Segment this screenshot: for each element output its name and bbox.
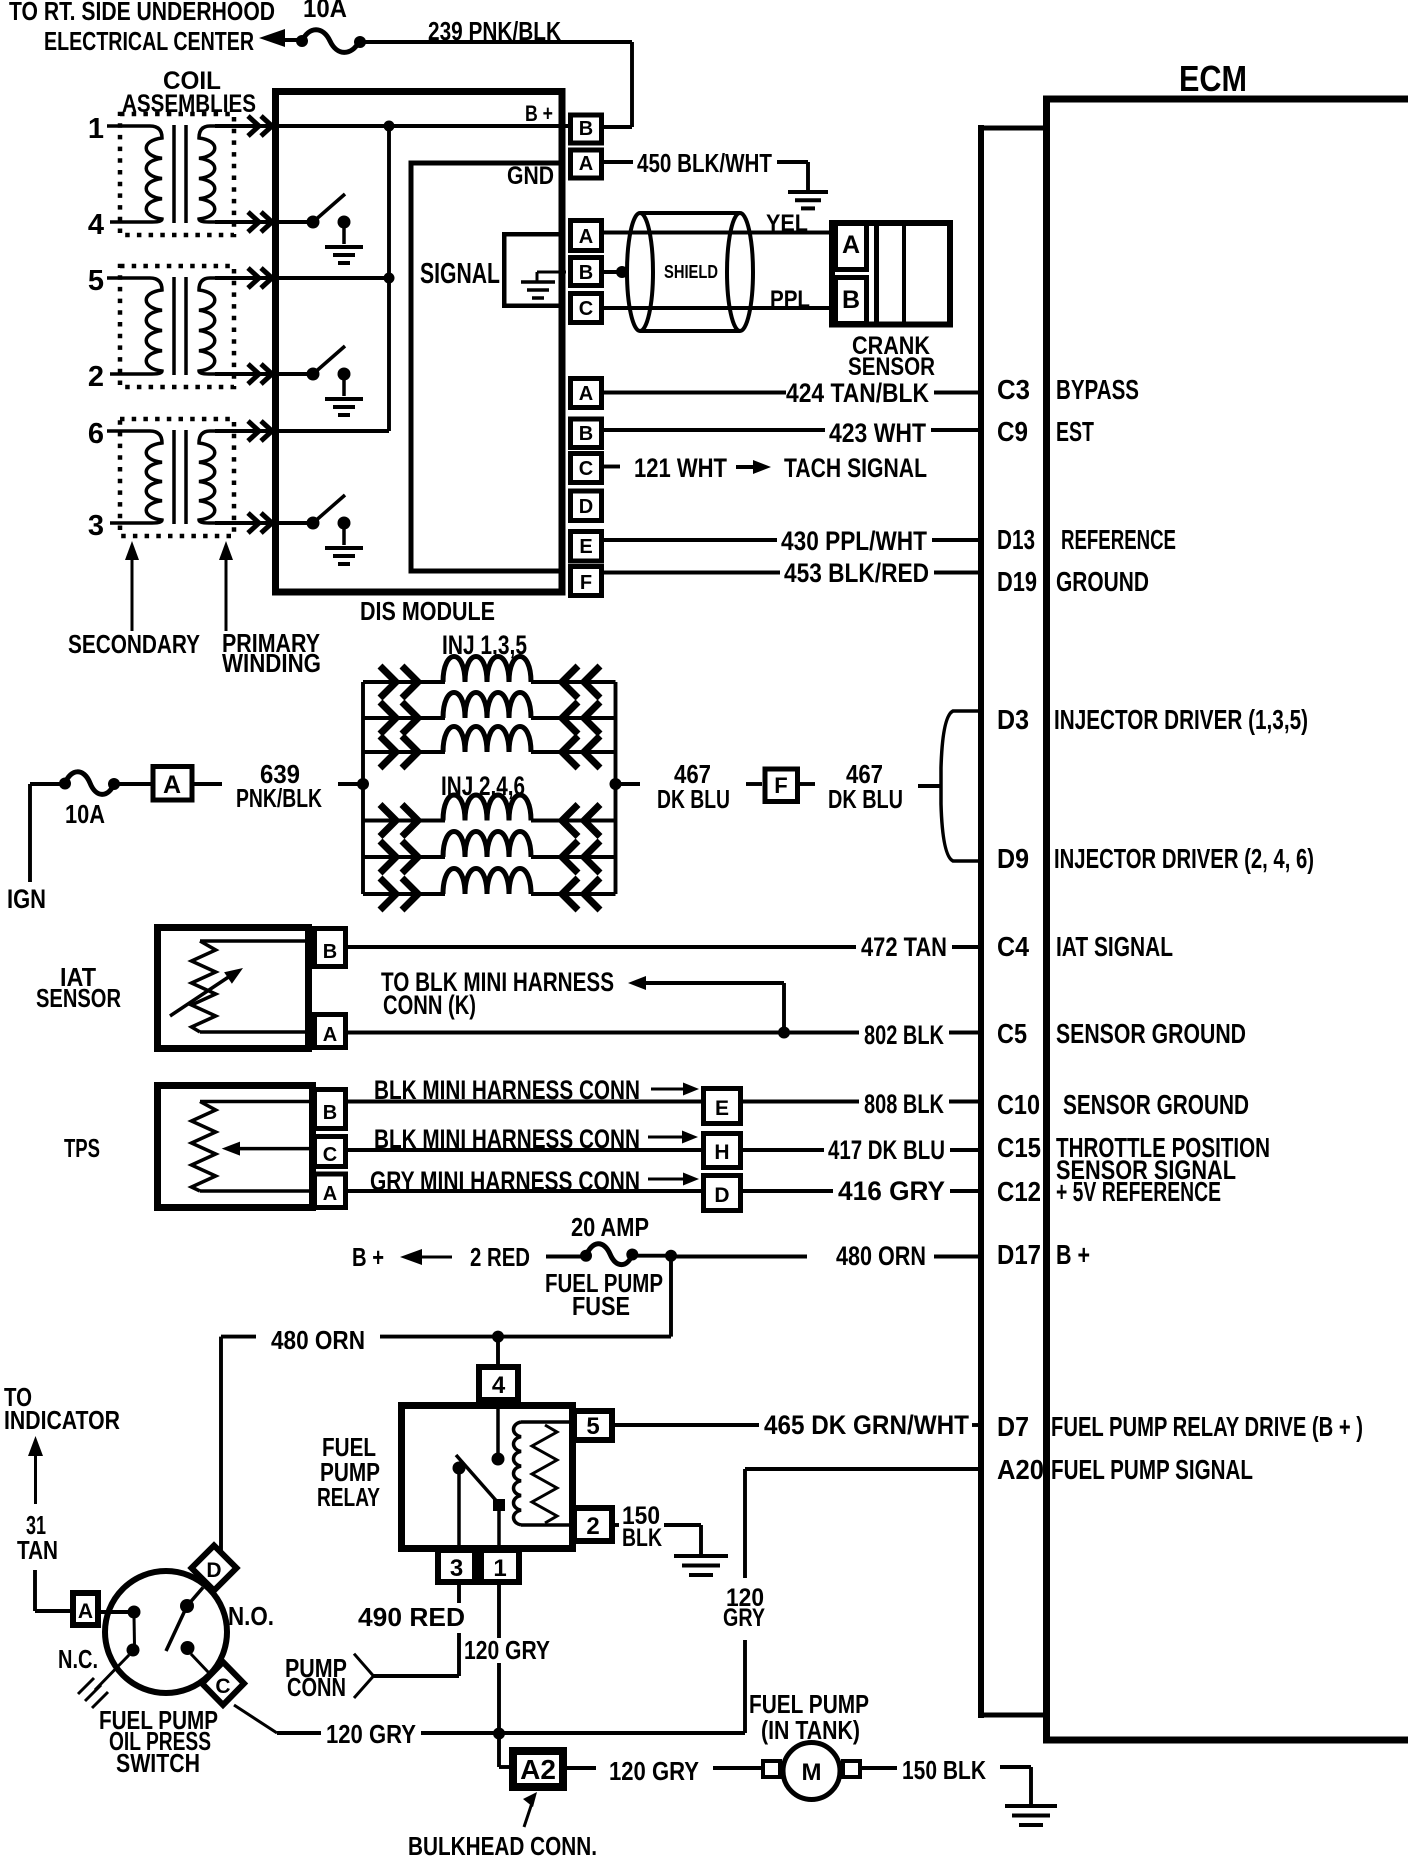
svg-text:GND: GND xyxy=(507,162,554,190)
svg-text:C: C xyxy=(215,1675,230,1698)
wire 467 DK BLU to connector F xyxy=(616,782,641,786)
svg-text:N.O.: N.O. xyxy=(228,1601,274,1631)
IAT terminal A xyxy=(315,1015,346,1048)
svg-text:B: B xyxy=(323,941,337,963)
injector row 3 xyxy=(363,750,445,754)
svg-text:PPL: PPL xyxy=(770,286,810,313)
relay pin 2 xyxy=(574,1508,612,1541)
crank pickup box with internal ground xyxy=(504,234,562,306)
injector row 6 xyxy=(363,892,445,896)
DIS terminal A (bypass) xyxy=(571,379,602,408)
wire 150 BLK from relay pin 2 xyxy=(615,1523,619,1527)
svg-text:416 GRY: 416 GRY xyxy=(838,1176,945,1206)
wire 416 GRY through connector D xyxy=(348,1189,701,1193)
svg-text:150 BLK: 150 BLK xyxy=(902,1755,986,1785)
wire 808 BLK through connector E xyxy=(348,1100,701,1104)
svg-text:M: M xyxy=(802,1759,822,1786)
wire 480 ORN branch down to relay xyxy=(669,1256,673,1337)
wire 120 GRY from oil press switch C xyxy=(234,1705,277,1733)
svg-text:D9: D9 xyxy=(997,843,1029,874)
N.C. contact to ground xyxy=(95,1655,129,1690)
svg-text:CONN: CONN xyxy=(287,1672,346,1702)
DIS signal inner box xyxy=(411,163,562,571)
svg-text:B +: B + xyxy=(1056,1239,1090,1270)
svg-text:SHIELD: SHIELD xyxy=(664,262,718,282)
svg-text:A: A xyxy=(579,383,593,405)
svg-text:2 RED: 2 RED xyxy=(470,1242,530,1272)
svg-text:EST: EST xyxy=(1056,416,1094,447)
svg-text:GRY: GRY xyxy=(723,1604,765,1632)
svg-text:5: 5 xyxy=(586,1413,599,1440)
wire 120 GRY from relay pin 1 xyxy=(497,1585,501,1638)
svg-text:B: B xyxy=(579,423,593,445)
svg-text:SENSOR GROUND: SENSOR GROUND xyxy=(1063,1089,1249,1120)
DIS terminal B (crank shield) xyxy=(571,258,602,286)
injector row 5 xyxy=(363,855,445,859)
svg-text:480 ORN: 480 ORN xyxy=(836,1241,926,1271)
svg-text:TPS: TPS xyxy=(64,1133,100,1163)
svg-text:4: 4 xyxy=(492,1372,506,1399)
switch arm and N.O. contact xyxy=(180,1599,194,1613)
DIS terminal D xyxy=(571,491,602,521)
DIS terminal B (est) xyxy=(571,419,602,448)
svg-text:INJECTOR DRIVER (2, 4, 6): INJECTOR DRIVER (2, 4, 6) xyxy=(1054,843,1314,874)
svg-text:3: 3 xyxy=(450,1555,463,1582)
svg-text:808 BLK: 808 BLK xyxy=(864,1089,944,1119)
svg-text:423 WHT: 423 WHT xyxy=(829,418,926,448)
B+ bus inside DIS xyxy=(272,124,568,128)
svg-text:BLK: BLK xyxy=(622,1524,662,1552)
injector row 1 xyxy=(363,680,445,684)
coil assembly T14 dotted box xyxy=(120,114,234,235)
svg-text:RELAY: RELAY xyxy=(317,1482,380,1512)
arrow to primary winding xyxy=(225,559,228,631)
svg-text:A: A xyxy=(323,1183,337,1205)
svg-text:A: A xyxy=(579,226,593,248)
svg-text:FUEL PUMP RELAY DRIVE (B + ): FUEL PUMP RELAY DRIVE (B + ) xyxy=(1051,1411,1363,1442)
TPS potentiometer zigzag xyxy=(192,1102,216,1192)
svg-text:E: E xyxy=(715,1097,729,1120)
svg-text:465 DK GRN/WHT: 465 DK GRN/WHT xyxy=(764,1410,969,1440)
relay pin 1 xyxy=(481,1550,519,1582)
svg-text:6: 6 xyxy=(88,418,104,450)
DIS terminal F (ground) xyxy=(571,567,602,596)
brace to injector driver pins D3 D9 xyxy=(941,711,978,861)
svg-text:10A: 10A xyxy=(303,0,347,23)
svg-text:430 PPL/WHT: 430 PPL/WHT xyxy=(781,526,927,556)
wire 453 BLK/RED ground xyxy=(604,571,780,575)
connector D xyxy=(704,1176,741,1211)
svg-text:120 GRY: 120 GRY xyxy=(464,1635,550,1665)
svg-text:A: A xyxy=(579,153,593,175)
svg-text:IAT SIGNAL: IAT SIGNAL xyxy=(1056,931,1173,962)
svg-text:TAN: TAN xyxy=(17,1535,58,1565)
svg-text:417 DK BLU: 417 DK BLU xyxy=(828,1135,945,1165)
svg-text:SIGNAL: SIGNAL xyxy=(420,258,500,290)
relay switch xyxy=(496,1403,500,1459)
svg-text:A: A xyxy=(163,771,181,799)
coil 1/4 secondary winding xyxy=(107,126,162,222)
svg-text:D: D xyxy=(714,1184,729,1207)
svg-text:ELECTRICAL CENTER: ELECTRICAL CENTER xyxy=(44,26,254,56)
svg-text:D3: D3 xyxy=(997,704,1029,735)
connector F xyxy=(765,769,798,802)
svg-text:A: A xyxy=(78,1600,93,1623)
svg-text:E: E xyxy=(579,536,592,558)
coil 1/4 core xyxy=(172,125,176,223)
svg-text:A: A xyxy=(842,231,860,259)
svg-text:C: C xyxy=(579,298,593,320)
TPS box xyxy=(158,1086,313,1208)
svg-text:472 TAN: 472 TAN xyxy=(861,932,947,962)
svg-text:B: B xyxy=(579,262,593,284)
relay pin 4 xyxy=(496,1337,500,1365)
arrow to A2 xyxy=(524,1803,532,1827)
svg-text:A20: A20 xyxy=(997,1454,1044,1485)
TPS terminal C xyxy=(315,1137,346,1167)
svg-text:3: 3 xyxy=(88,510,104,542)
svg-text:YEL: YEL xyxy=(766,210,808,237)
svg-text:D17: D17 xyxy=(997,1239,1041,1270)
DIS terminal A (GND) xyxy=(571,150,602,178)
svg-text:A: A xyxy=(323,1024,337,1046)
svg-text:PNK/BLK: PNK/BLK xyxy=(236,783,322,813)
svg-text:H: H xyxy=(714,1141,729,1164)
svg-text:C12: C12 xyxy=(997,1176,1041,1207)
connector A xyxy=(114,782,151,786)
svg-text:WINDING: WINDING xyxy=(222,648,321,678)
IAT terminal B xyxy=(315,929,346,967)
svg-text:F: F xyxy=(580,572,592,594)
svg-text:453 BLK/RED: 453 BLK/RED xyxy=(784,558,929,588)
coil 5/2 secondary winding xyxy=(107,278,162,374)
DIS terminal C (crank ppl) xyxy=(571,294,602,323)
svg-text:121 WHT: 121 WHT xyxy=(634,453,727,483)
wire 802 BLK sensor ground xyxy=(348,1031,859,1035)
oil press switch terminal C diamond xyxy=(202,1662,244,1705)
svg-text:INDICATOR: INDICATOR xyxy=(4,1405,120,1435)
svg-text:424 TAN/BLK: 424 TAN/BLK xyxy=(786,378,929,408)
chevrons into DIS for coil 6/3 xyxy=(215,429,272,433)
relay pin 3 xyxy=(438,1550,475,1582)
svg-text:REFERENCE: REFERENCE xyxy=(1061,524,1176,555)
coil 6/3 primary winding xyxy=(199,431,248,523)
svg-text:SECONDARY: SECONDARY xyxy=(68,629,200,659)
oil press switch terminal D diamond xyxy=(192,1546,237,1591)
svg-text:CONN (K): CONN (K) xyxy=(383,990,476,1020)
svg-text:SENSOR GROUND: SENSOR GROUND xyxy=(1056,1018,1246,1049)
svg-text:802 BLK: 802 BLK xyxy=(864,1020,944,1050)
pump conn symbol xyxy=(354,1654,374,1698)
svg-text:490 RED: 490 RED xyxy=(358,1602,465,1632)
svg-text:B: B xyxy=(842,286,860,314)
svg-text:FUEL PUMP SIGNAL: FUEL PUMP SIGNAL xyxy=(1051,1454,1253,1485)
svg-text:B +: B + xyxy=(352,1242,384,1272)
bulkhead connector A2 xyxy=(513,1751,563,1787)
svg-text:TACH SIGNAL: TACH SIGNAL xyxy=(784,453,927,483)
svg-text:DIS MODULE: DIS MODULE xyxy=(360,596,495,626)
injector row 2 xyxy=(363,716,445,720)
fuel pump oil press switch body xyxy=(105,1571,227,1693)
svg-text:120 GRY: 120 GRY xyxy=(326,1719,416,1749)
branch to blk mini harness conn K xyxy=(782,983,786,1033)
TPS wiper arrow xyxy=(238,1147,311,1151)
fuel pump relay box xyxy=(402,1406,573,1549)
chevrons into DIS for coil 5/2 xyxy=(215,276,272,280)
svg-text:ASSEMBLIES: ASSEMBLIES xyxy=(122,90,256,118)
connector H xyxy=(704,1134,741,1168)
svg-text:C15: C15 xyxy=(997,1132,1041,1163)
wire 480 ORN to ECM D17 xyxy=(676,1255,807,1259)
arrow to secondary winding xyxy=(131,559,134,631)
DIS terminal A (crank yel) xyxy=(571,221,602,251)
ECM connector column xyxy=(978,125,984,1718)
svg-text:1: 1 xyxy=(493,1555,506,1582)
svg-text:D: D xyxy=(579,496,593,518)
wire 430 PPL/WHT reference xyxy=(604,538,777,542)
relay pin 5 xyxy=(574,1411,612,1440)
svg-text:2: 2 xyxy=(88,361,104,393)
svg-text:C: C xyxy=(323,1144,337,1166)
oil press switch terminal A xyxy=(73,1593,98,1625)
DIS terminal B (B+) xyxy=(571,115,602,143)
svg-text:C4: C4 xyxy=(997,931,1029,962)
coil 1/4 primary winding xyxy=(199,126,248,222)
svg-text:5: 5 xyxy=(88,265,104,297)
coil assembly T52 dotted box xyxy=(120,266,234,387)
svg-text:B +: B + xyxy=(525,101,553,126)
IAT thermistor zigzag xyxy=(192,941,216,1032)
svg-text:10A: 10A xyxy=(65,799,105,829)
DIS terminal C (tach) xyxy=(571,454,602,483)
coil 5/2 primary winding xyxy=(199,278,248,374)
wire down to A2 bulkhead xyxy=(497,1734,501,1768)
svg-text:D7: D7 xyxy=(997,1411,1029,1442)
driver switches to ground (coils 4,2,3) xyxy=(272,220,313,224)
TPS terminal A xyxy=(315,1174,346,1208)
IAT sensor box xyxy=(158,928,309,1049)
svg-text:C10: C10 xyxy=(997,1089,1040,1120)
svg-text:20 AMP: 20 AMP xyxy=(571,1212,649,1242)
fuel pump fuse 20 amp xyxy=(546,1255,581,1259)
svg-text:B: B xyxy=(323,1102,337,1124)
svg-text:SENSOR: SENSOR xyxy=(848,353,935,381)
wire 120 GRY to fuel pump xyxy=(567,1766,596,1770)
svg-text:DK BLU: DK BLU xyxy=(828,784,903,814)
wire 450 BLK/WHT to ground xyxy=(604,160,633,164)
shielded cable to crank sensor xyxy=(604,231,833,235)
wire 150 BLK to ground xyxy=(862,1766,897,1770)
wire 417 DK BLU through connector H xyxy=(348,1148,701,1152)
svg-text:1: 1 xyxy=(88,113,104,145)
svg-text:SENSOR SIGNAL: SENSOR SIGNAL xyxy=(1056,1155,1236,1185)
svg-text:B: B xyxy=(579,118,593,140)
wire coil6 to bus xyxy=(272,429,389,433)
wire 480 ORN to oil press switch D xyxy=(219,1337,223,1553)
svg-text:A2: A2 xyxy=(520,1754,556,1785)
svg-text:450 BLK/WHT: 450 BLK/WHT xyxy=(637,148,772,178)
crank sensor connector xyxy=(832,223,950,325)
svg-text:C5: C5 xyxy=(997,1018,1027,1049)
wire 120 GRY from ECM A20 xyxy=(745,1467,978,1471)
svg-text:2: 2 xyxy=(586,1513,599,1540)
injector bank buses xyxy=(357,778,369,790)
svg-text:BULKHEAD CONN.: BULKHEAD CONN. xyxy=(408,1831,597,1856)
arrow up to indicator xyxy=(34,1453,37,1504)
svg-text:F: F xyxy=(774,773,787,798)
svg-text:D19: D19 xyxy=(997,566,1037,597)
wire 423 WHT est xyxy=(604,428,825,432)
svg-text:120 GRY: 120 GRY xyxy=(609,1756,699,1786)
svg-text:SWITCH: SWITCH xyxy=(116,1748,200,1778)
svg-text:480 ORN: 480 ORN xyxy=(271,1325,365,1355)
connector E xyxy=(704,1089,741,1124)
coil 6/3 core xyxy=(172,430,176,524)
coil assembly T63 dotted box xyxy=(120,419,234,536)
svg-text:C9: C9 xyxy=(997,416,1028,447)
svg-text:C3: C3 xyxy=(997,374,1030,405)
wire 465 DK GRN/WHT to D7 xyxy=(615,1423,759,1427)
wire 121 WHT tach signal xyxy=(604,465,620,469)
svg-text:D: D xyxy=(206,1559,221,1582)
relay coil xyxy=(514,1422,522,1525)
svg-text:C: C xyxy=(579,458,593,480)
svg-text:TO RT. SIDE UNDERHOOD: TO RT. SIDE UNDERHOOD xyxy=(9,0,275,26)
coil 5/2 core xyxy=(172,277,176,375)
injector row 4 xyxy=(363,819,445,823)
svg-text:ECM: ECM xyxy=(1179,58,1247,99)
svg-text:INJECTOR DRIVER (1,3,5): INJECTOR DRIVER (1,3,5) xyxy=(1054,704,1308,735)
svg-text:DK BLU: DK BLU xyxy=(657,784,730,814)
wire 424 TAN/BLK bypass xyxy=(604,391,786,395)
svg-text:BYPASS: BYPASS xyxy=(1056,374,1139,405)
wire 472 TAN iat signal xyxy=(348,945,856,949)
IAT variable arrow xyxy=(170,974,233,1016)
fuse 10A ign xyxy=(59,778,71,790)
wire coil5 to bus xyxy=(272,276,389,280)
coil 6/3 secondary winding xyxy=(107,431,162,523)
svg-text:GROUND: GROUND xyxy=(1056,566,1149,597)
svg-text:FUSE: FUSE xyxy=(572,1291,630,1321)
DIS terminal E (reference) xyxy=(571,532,602,562)
chevrons into DIS for coil 1/4 xyxy=(215,124,272,128)
svg-text:IGN: IGN xyxy=(7,884,46,914)
wire 490 RED from relay pin 3 xyxy=(457,1585,461,1603)
svg-text:4: 4 xyxy=(88,209,104,241)
svg-text:N.C.: N.C. xyxy=(58,1644,98,1674)
svg-text:SENSOR: SENSOR xyxy=(36,983,121,1013)
TPS terminal B xyxy=(315,1090,346,1129)
DIS module outline xyxy=(276,92,563,593)
svg-text:D13: D13 xyxy=(997,524,1035,555)
